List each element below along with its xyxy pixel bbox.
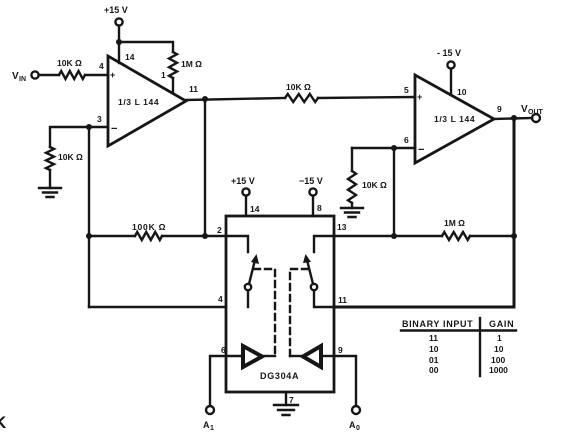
svg-text:+15 V: +15 V	[104, 5, 128, 15]
wire pin 6 internal	[226, 355, 243, 357]
svg-text:V: V	[12, 71, 19, 82]
svg-text:3: 3	[97, 114, 102, 124]
svg-text:10K Ω: 10K Ω	[57, 58, 82, 68]
junction output U1	[202, 96, 208, 102]
ground G3	[274, 405, 298, 415]
svg-text:1/3 L 144: 1/3 L 144	[118, 97, 159, 107]
svg-text:00: 00	[429, 365, 439, 375]
svg-text:1/3 L 144: 1/3 L 144	[434, 114, 475, 124]
svg-text:11: 11	[189, 84, 198, 94]
wire VOUT node down right side	[513, 118, 516, 307]
junction pin6 node	[391, 145, 397, 151]
svg-text:9: 9	[338, 345, 343, 355]
junction pin6-feedback	[391, 233, 397, 239]
supply terminal +15V	[104, 5, 128, 26]
svg-text:−15 V: −15 V	[299, 176, 323, 186]
svg-text:4: 4	[218, 294, 223, 304]
driver A1 triangle	[243, 346, 262, 367]
svg-text:+15 V: +15 V	[231, 176, 255, 186]
svg-text:01: 01	[429, 355, 439, 365]
switch S2 arm	[303, 254, 317, 290]
svg-text:GAIN: GAIN	[489, 319, 514, 329]
svg-text:14: 14	[125, 52, 135, 62]
svg-text:IN: IN	[19, 76, 26, 83]
svg-text:10K Ω: 10K Ω	[286, 82, 311, 92]
terminal VOUT	[521, 104, 544, 122]
svg-text:−: −	[418, 144, 424, 156]
svg-text:7: 7	[289, 395, 294, 405]
svg-text:13: 13	[337, 222, 347, 232]
wire pin 11 line	[334, 306, 514, 309]
supply terminal +15V box	[231, 176, 255, 196]
wire left node to 100K	[89, 235, 135, 237]
switch S1 arm	[245, 254, 259, 290]
svg-text:100K Ω: 100K Ω	[132, 222, 166, 232]
svg-text:14: 14	[250, 204, 260, 214]
svg-text:- 15 V: - 15 V	[437, 48, 461, 58]
svg-text:−: −	[111, 123, 117, 135]
wire -15V to pin 10	[450, 69, 452, 95]
wire output U1 to pin 5 U2	[186, 98, 285, 100]
svg-text:K: K	[0, 413, 7, 432]
svg-text:10: 10	[457, 87, 467, 97]
junction +15V rail	[116, 39, 122, 45]
wire R2 bottom to pin 1	[172, 78, 174, 93]
junction 1M right	[511, 233, 517, 239]
svg-text:1000: 1000	[489, 365, 508, 375]
svg-text:8: 8	[317, 203, 322, 213]
resistor R4 10K interstage	[285, 82, 318, 102]
wire pin 4 line	[89, 306, 226, 308]
svg-text:BINARY INPUT: BINARY INPUT	[402, 319, 473, 329]
svg-text:5: 5	[404, 85, 409, 95]
svg-text:10: 10	[429, 344, 439, 354]
resistor R3 10K to ground	[46, 147, 83, 170]
junction VOUT node	[511, 115, 517, 121]
supply terminal -15V	[437, 48, 461, 69]
wire S1 to pin 4 internal	[247, 290, 249, 307]
wire down to R5	[351, 148, 353, 171]
wire pin 13 to 1M	[334, 235, 442, 237]
terminal A1	[203, 406, 214, 432]
wire pin 3 left	[50, 127, 108, 147]
terminal VIN	[12, 71, 39, 83]
dashed control S2	[290, 269, 308, 356]
wire rail to R2 top	[119, 42, 173, 52]
svg-text:100: 100	[491, 355, 505, 365]
svg-text:1M Ω: 1M Ω	[444, 218, 465, 228]
svg-text:+: +	[110, 70, 115, 80]
IC DG304A box	[226, 216, 334, 392]
resistor R7 1M	[442, 218, 470, 240]
svg-text:V: V	[521, 104, 528, 115]
wire output U2 to VOUT	[494, 118, 532, 119]
wire 100K to pin 2	[162, 235, 226, 237]
wire pin 9 to A0 terminal	[334, 356, 356, 406]
wire S2 to pin 11 internal	[314, 290, 334, 307]
wire 1M to right vertical	[470, 235, 514, 237]
ground G1	[39, 188, 61, 197]
svg-text:A: A	[349, 420, 356, 430]
wire R1 to op-amp pin 4	[85, 74, 108, 76]
op-amp U1 1/3 L144	[108, 56, 186, 146]
resistor R5 10K to ground	[348, 171, 387, 203]
wire pin 9 internal	[321, 355, 334, 357]
wire R3 to ground	[49, 170, 51, 188]
resistor R1 10K input	[57, 58, 85, 79]
wire +15V down to rail	[118, 26, 120, 42]
svg-text:+: +	[417, 92, 422, 102]
svg-text:10K Ω: 10K Ω	[58, 152, 83, 162]
wire U1 output down to gain line	[204, 99, 206, 236]
wire +15V to pin 14 box	[245, 196, 247, 216]
wire R4 to pin 5	[318, 97, 415, 98]
resistor R6 100K	[132, 222, 166, 240]
svg-text:4: 4	[99, 61, 104, 71]
junction output-gain line	[202, 233, 208, 239]
wire R5 to ground	[351, 203, 353, 208]
svg-text:1M Ω: 1M Ω	[181, 59, 202, 69]
svg-text:1: 1	[210, 425, 214, 432]
gain table	[401, 318, 516, 376]
wire pin 13 internal stub	[314, 236, 334, 252]
svg-text:0: 0	[356, 425, 360, 432]
svg-text:6: 6	[404, 135, 409, 145]
svg-text:DG304A: DG304A	[260, 371, 299, 381]
svg-text:11: 11	[429, 333, 438, 343]
svg-text:9: 9	[497, 104, 502, 114]
dashed control S1	[254, 269, 275, 356]
ground G2	[341, 208, 363, 217]
svg-text:11: 11	[338, 295, 347, 305]
wire pin6 node down to feedback line	[393, 148, 395, 236]
svg-text:2: 2	[217, 225, 222, 235]
wire left vertical feedback	[88, 127, 90, 307]
svg-text:10K Ω: 10K Ω	[362, 180, 387, 190]
supply terminal -15V box	[299, 176, 323, 196]
svg-text:6: 6	[221, 345, 226, 355]
wire pin 6 left	[352, 147, 415, 149]
wire pin 14 stub	[118, 42, 120, 63]
wire pin 7 stub	[285, 392, 287, 405]
wire pin 6 to A1 terminal	[210, 356, 226, 406]
svg-text:10: 10	[494, 344, 504, 354]
driver A0 triangle	[303, 346, 321, 367]
op-amp U2 1/3 L144	[415, 75, 494, 163]
junction left node gain line	[86, 233, 92, 239]
wire -15V to pin 8 box	[312, 196, 314, 216]
resistor R2 1M feedback	[169, 52, 202, 78]
wire VIN to R1	[39, 74, 59, 76]
wire driver2 output stub	[290, 355, 303, 357]
wire pin 2 internal stub	[226, 236, 248, 252]
wire driver1 output stub	[262, 355, 275, 357]
terminal A0	[349, 406, 360, 432]
junction pin3 node	[86, 124, 92, 130]
svg-text:A: A	[203, 420, 210, 430]
svg-text:1: 1	[497, 333, 502, 343]
svg-text:1: 1	[161, 70, 166, 80]
